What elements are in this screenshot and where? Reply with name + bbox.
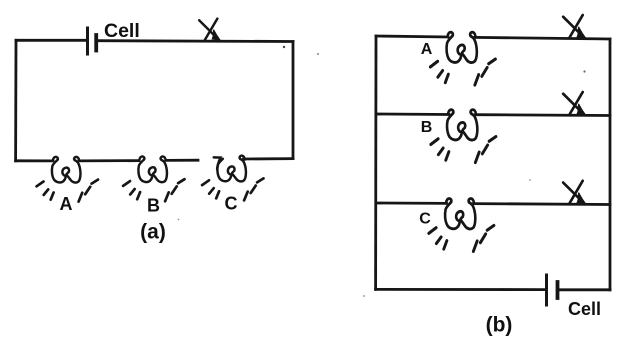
svg-text:C: C bbox=[419, 211, 431, 228]
svg-text:B: B bbox=[147, 196, 160, 216]
svg-text:B: B bbox=[421, 119, 433, 136]
svg-text:Cell: Cell bbox=[104, 20, 140, 42]
svg-text:Cell: Cell bbox=[568, 299, 601, 319]
svg-text:A: A bbox=[421, 41, 433, 58]
svg-text:A: A bbox=[60, 194, 73, 214]
svg-text:(a): (a) bbox=[140, 221, 166, 244]
svg-text:(b): (b) bbox=[486, 314, 513, 337]
svg-text:C: C bbox=[225, 194, 238, 214]
